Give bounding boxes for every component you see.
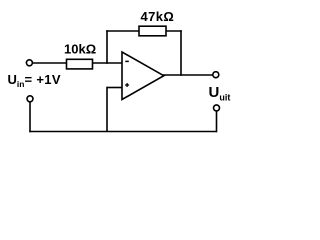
resistor R1 10kOhm — [67, 59, 93, 69]
wire non-inverting input vertical to bottom rail — [106, 87, 108, 132]
wire non-inverting input horizontal — [107, 87, 122, 89]
svg-text:Uin= +1V: Uin= +1V — [8, 72, 61, 89]
wire feedback tap vertical (node A up to 47k) — [106, 30, 108, 64]
wire bottom-left terminal drop — [29, 102, 31, 133]
resistor R2 47kOhm — [139, 26, 166, 36]
wire output: op-amp to output terminal — [163, 74, 213, 76]
input terminal (top left) — [26, 60, 32, 66]
op-amp inverting pin minus sign — [125, 60, 129, 62]
op-amp U1 — [122, 52, 164, 100]
op-amp non-inverting pin plus sign — [125, 83, 129, 87]
bottom-right terminal — [214, 105, 220, 111]
svg-text:10kΩ: 10kΩ — [64, 42, 96, 57]
wire bottom rail — [29, 131, 216, 133]
bottom-left terminal — [27, 96, 33, 102]
output terminal (top right) — [213, 72, 219, 78]
wire input: terminal to op-amp inverting input — [33, 62, 122, 64]
svg-text:47kΩ: 47kΩ — [141, 9, 175, 24]
wire feedback right vertical down to output — [180, 30, 182, 76]
wire feedback top horizontal — [106, 30, 182, 32]
wire bottom-right terminal drop — [216, 111, 218, 133]
